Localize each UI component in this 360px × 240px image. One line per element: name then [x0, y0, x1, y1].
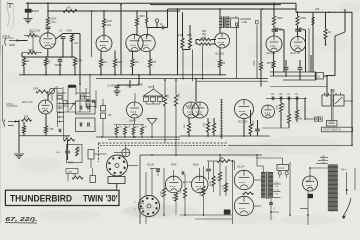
svg-text:ECC 83: ECC 83	[291, 51, 301, 55]
svg-text:68K: 68K	[202, 36, 207, 39]
svg-text:ECC 82: ECC 82	[186, 104, 196, 108]
svg-text:1M: 1M	[127, 85, 130, 88]
svg-text:100K: 100K	[178, 34, 184, 37]
svg-text:EL34: EL34	[238, 165, 245, 169]
svg-text:1M: 1M	[51, 43, 54, 46]
svg-text:56K: 56K	[29, 49, 34, 52]
svg-text:500K: 500K	[193, 163, 199, 166]
svg-text:5K: 5K	[48, 61, 51, 64]
svg-text:100K: 100K	[200, 191, 202, 196]
svg-text:LINE: LINE	[242, 21, 248, 24]
svg-text:·022: ·022	[51, 20, 57, 24]
svg-text:15K: 15K	[267, 62, 272, 65]
svg-text:CH.2: CH.2	[3, 34, 10, 38]
svg-text:1M: 1M	[26, 60, 29, 63]
svg-text:56K: 56K	[29, 32, 34, 35]
svg-text:25MFD: 25MFD	[55, 65, 63, 67]
svg-text:10M: 10M	[315, 9, 320, 11]
svg-text:180K: 180K	[277, 16, 283, 20]
svg-text:180K: 180K	[139, 14, 145, 18]
svg-text:FOOT SWITCH: FOOT SWITCH	[324, 129, 342, 132]
svg-text:120K: 120K	[138, 84, 144, 87]
svg-text:245V: 245V	[253, 120, 255, 126]
svg-text:220K: 220K	[51, 17, 57, 21]
svg-text:ECC 83: ECC 83	[22, 100, 33, 104]
svg-text:100K: 100K	[254, 60, 256, 66]
svg-text:46K: 46K	[50, 128, 55, 131]
svg-text:7 MS: 7 MS	[68, 163, 74, 165]
svg-text:470K: 470K	[223, 185, 225, 190]
svg-text:ECC83A: ECC83A	[238, 121, 248, 124]
svg-text:150K: 150K	[187, 34, 193, 37]
svg-text:5-6-4: 5-6-4	[341, 170, 347, 172]
svg-text:2UM: 2UM	[330, 90, 335, 93]
svg-text:1M: 1M	[73, 175, 76, 177]
svg-text:16K: 16K	[66, 6, 71, 10]
svg-text:ECC 83: ECC 83	[183, 181, 192, 184]
svg-text:220K: 220K	[210, 181, 212, 186]
svg-text:·001: ·001	[74, 43, 79, 45]
svg-text:100K: 100K	[106, 19, 112, 23]
svg-text:CH.1: CH.1	[7, 102, 14, 106]
svg-text:TMS: TMS	[68, 171, 73, 173]
svg-text:150K: 150K	[277, 105, 279, 110]
svg-text:500K: 500K	[171, 163, 177, 166]
svg-text:8MFD: 8MFD	[32, 9, 39, 13]
svg-text:220K: 220K	[77, 60, 83, 63]
svg-text:VR5: VR5	[148, 87, 153, 89]
svg-text:ECC 83: ECC 83	[129, 49, 139, 53]
svg-text:EZ81: EZ81	[306, 181, 312, 183]
svg-text:135 µF: 135 µF	[147, 163, 155, 166]
svg-text:100K: 100K	[33, 88, 39, 91]
svg-text:1MEG: 1MEG	[79, 146, 81, 152]
svg-text:47K: 47K	[135, 127, 139, 129]
svg-text:67, 22/).: 67, 22/).	[5, 217, 38, 223]
svg-text:470K: 470K	[284, 102, 286, 108]
svg-text:'30': '30'	[106, 194, 118, 205]
svg-text:250K: 250K	[81, 93, 86, 95]
svg-text:+001: +001	[56, 152, 62, 154]
svg-text:1C0K: 1C0K	[58, 94, 64, 96]
svg-text:200K: 200K	[300, 16, 306, 20]
svg-text:12-1J: 12-1J	[278, 168, 284, 170]
svg-text:·022: ·022	[106, 24, 111, 27]
svg-text:16 MFD: 16 MFD	[107, 85, 116, 88]
svg-text:470K: 470K	[67, 30, 73, 33]
svg-text:270K: 270K	[161, 191, 163, 196]
svg-text:47B: 47B	[152, 61, 157, 64]
svg-text:10K: 10K	[127, 127, 131, 129]
